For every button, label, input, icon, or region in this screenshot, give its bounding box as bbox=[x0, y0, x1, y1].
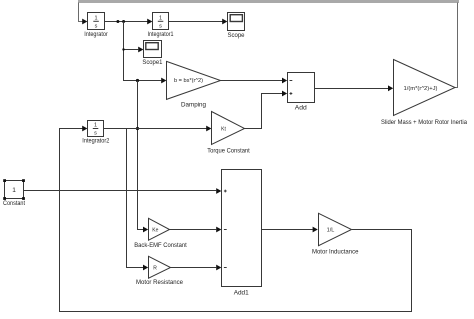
svg-text:Damping: Damping bbox=[181, 102, 206, 109]
block Integrator bbox=[88, 13, 105, 30]
wire Damping output to Add input 1 bbox=[221, 80, 283, 82]
arrowhead into Kt bbox=[206, 126, 211, 132]
block Integrator2 bbox=[88, 121, 104, 137]
arrowhead into Integrator bbox=[82, 19, 87, 25]
wire feedback top gray bar bbox=[78, 0, 459, 3]
wire Constant output to Add1 input 1 bbox=[24, 190, 217, 192]
wire Integrator1 output to Scope bbox=[169, 21, 223, 23]
gain U inertia (Slider Mass + Motor Rotor Inertia) bbox=[394, 60, 456, 116]
arrowhead into R bbox=[143, 265, 148, 271]
node junction dot B on Integrator output bbox=[122, 20, 125, 23]
svg-text:1: 1 bbox=[159, 16, 162, 22]
wire branch down from Integrator output to Damping row bbox=[124, 22, 162, 81]
svg-text:s: s bbox=[159, 24, 162, 30]
svg-text:Add1: Add1 bbox=[234, 289, 249, 296]
wire Ke output to Add1 input 2 bbox=[170, 229, 217, 231]
arrowhead into inertia gain bbox=[388, 85, 393, 91]
svg-text:Integrator: Integrator bbox=[84, 31, 108, 38]
svg-text:1/L: 1/L bbox=[327, 228, 335, 234]
wire feedback left vertical into Integrator bbox=[79, 3, 83, 22]
wire from Damping-line junction down to Ke input bbox=[138, 81, 144, 230]
wire Kt output up to Add input 2 bbox=[245, 94, 283, 129]
arrowhead into Integrator2 bbox=[82, 126, 87, 132]
svg-text:1: 1 bbox=[12, 187, 16, 194]
svg-text:Torque Constant: Torque Constant bbox=[207, 148, 250, 155]
svg-text:1: 1 bbox=[94, 123, 97, 129]
block Constant bbox=[3, 179, 25, 200]
wire Motor Inductance output bottom feedback loop to Integrator2 bbox=[60, 129, 412, 312]
svg-text:Motor Inductance: Motor Inductance bbox=[312, 249, 359, 256]
svg-text:b = bs*(r^2): b = bs*(r^2) bbox=[174, 78, 203, 84]
svg-text:Ke: Ke bbox=[152, 227, 158, 233]
block Scope1 bbox=[144, 41, 162, 58]
svg-text:R: R bbox=[153, 265, 157, 271]
gain Damping bbox=[167, 61, 221, 99]
wire feedback right vertical from inertia gain output bbox=[455, 3, 458, 88]
svg-text:Add: Add bbox=[295, 104, 307, 111]
block Add1 bbox=[222, 170, 262, 287]
block Integrator1 bbox=[153, 13, 169, 30]
arrowhead into Motor Inductance bbox=[313, 227, 318, 233]
svg-text:1/(m*(r^2)+J): 1/(m*(r^2)+J) bbox=[404, 86, 438, 92]
svg-text:Integrator1: Integrator1 bbox=[148, 31, 174, 38]
node junction dot on Integrator2 output crossing bbox=[136, 127, 139, 130]
wire Integrator2 output to Kt input bbox=[104, 128, 207, 130]
block Add bbox=[288, 73, 315, 103]
arrowhead into Add1 input 1 bbox=[216, 188, 221, 194]
wire R output to Add1 input 3 bbox=[171, 267, 217, 269]
svg-text:Scope: Scope bbox=[228, 32, 245, 39]
arrowhead into Scope bbox=[222, 19, 227, 25]
arrowhead into Ke bbox=[143, 227, 148, 233]
node junction dot A on Integrator output bbox=[116, 20, 119, 23]
gain Kt bbox=[212, 112, 245, 145]
arrowhead into Add1 input 3 bbox=[216, 265, 221, 271]
arrowhead into Add input 2 bbox=[282, 91, 287, 97]
wire branch to Scope1 bbox=[124, 49, 139, 51]
gain Motor Inductance (1/L) bbox=[319, 213, 352, 245]
wire Integrator output to Integrator1 bbox=[105, 21, 148, 23]
arrowhead into Add1 input 2 bbox=[216, 227, 221, 233]
block Scope bbox=[228, 13, 245, 31]
svg-text:1: 1 bbox=[94, 16, 97, 22]
svg-text:Kt: Kt bbox=[221, 126, 226, 132]
svg-text:s: s bbox=[94, 131, 97, 137]
node junction dot on Damping feed line bbox=[136, 79, 139, 82]
arrowhead into Integrator1 bbox=[147, 19, 152, 25]
wire from Integrator2 output line down to R input bbox=[127, 129, 144, 268]
arrowhead into Add input 1 bbox=[282, 78, 287, 84]
wire Add output to inertia gain bbox=[315, 88, 389, 90]
svg-text:Slider Mass + Motor Rotor Iner: Slider Mass + Motor Rotor Inertia bbox=[381, 119, 467, 126]
arrowhead into Scope1 bbox=[138, 47, 143, 53]
svg-text:s: s bbox=[95, 24, 98, 30]
wire Add1 output to Motor Inductance bbox=[262, 229, 313, 231]
node junction dot on Scope1 branch bbox=[122, 48, 124, 50]
svg-text:Back-EMF Constant: Back-EMF Constant bbox=[134, 242, 187, 249]
arrowhead into Damping bbox=[161, 78, 166, 84]
svg-text:Integrator2: Integrator2 bbox=[82, 138, 109, 145]
svg-text:Motor Resistance: Motor Resistance bbox=[136, 279, 183, 286]
gain R bbox=[149, 256, 171, 278]
gain Ke bbox=[149, 218, 170, 240]
svg-text:Scope1: Scope1 bbox=[142, 59, 162, 66]
svg-text:Constant: Constant bbox=[3, 200, 25, 207]
